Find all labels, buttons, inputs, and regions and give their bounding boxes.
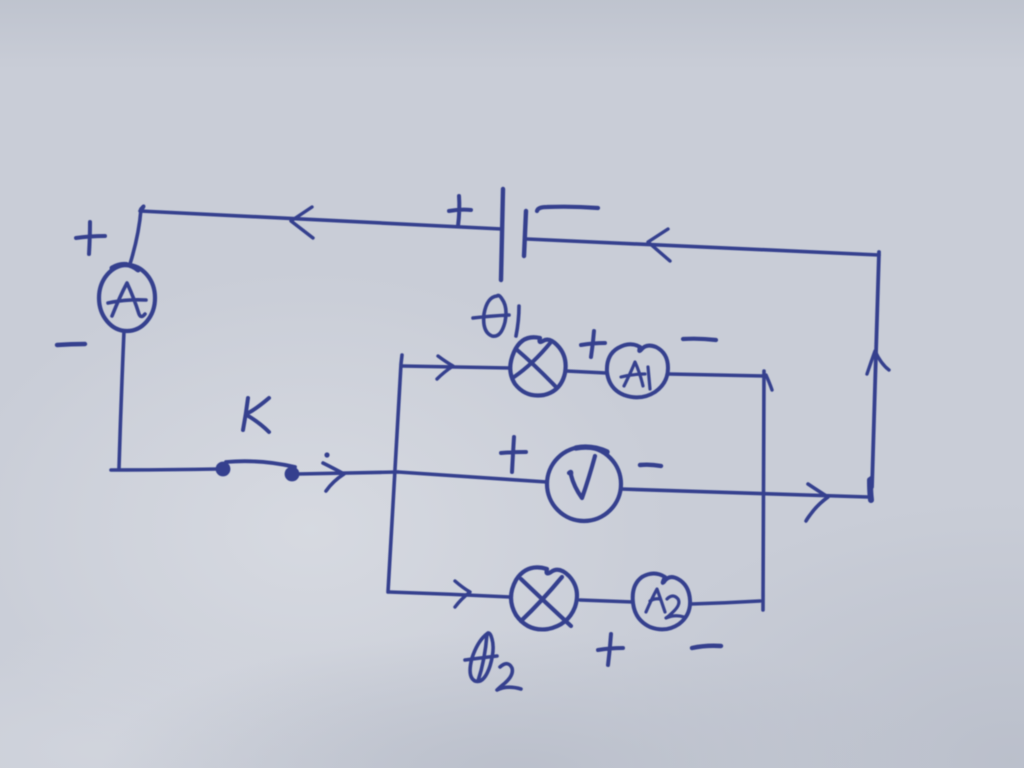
junction blob right end	[870, 480, 871, 500]
wire voltmeter to right	[621, 489, 868, 497]
battery B right plate	[524, 211, 526, 256]
wire far right rail	[870, 252, 879, 498]
lamp L1 cross	[514, 342, 557, 388]
arrow bottom branch	[455, 581, 470, 607]
ammeter A1 plus label	[581, 331, 605, 357]
switch K label	[243, 398, 269, 432]
wire middle: left rail to voltmeter	[398, 472, 547, 482]
arrow top branch	[437, 356, 453, 379]
ammeter A body	[99, 265, 155, 331]
ammeter A2 body	[633, 574, 690, 630]
ammeter A1 letters	[621, 362, 650, 389]
ammeter A2 letters	[646, 589, 684, 618]
ammeter A1 minus label	[683, 339, 716, 340]
arrow on top-left wire	[291, 207, 313, 238]
ammeter A minus label	[57, 344, 85, 345]
wire top-right (right rail to battery -)	[527, 239, 879, 255]
switch K contact dot 2	[285, 467, 300, 482]
dot above arrow	[324, 452, 329, 457]
voltmeter top blob	[576, 447, 607, 452]
wire from corner down to ammeter A	[130, 209, 141, 264]
lamp L2 label theta2	[465, 633, 521, 690]
junction tick on inner right rail	[766, 375, 772, 390]
lamp L2 cross	[521, 577, 571, 626]
wire bottom branch left	[389, 592, 510, 597]
wire to switch	[111, 469, 218, 470]
switch K blade	[226, 461, 295, 467]
lamp L2 body	[511, 567, 577, 629]
arrow after switch	[323, 463, 344, 491]
ammeter A plus label	[76, 222, 105, 254]
arrow on top-right wire	[648, 229, 670, 261]
voltmeter plus label	[501, 437, 526, 472]
ammeter A1 body	[607, 344, 668, 397]
lamp L1 body	[510, 337, 565, 395]
switch K contact dot 1	[216, 462, 231, 477]
voltmeter minus label	[640, 465, 661, 466]
wire A1 to inner right rail	[669, 374, 764, 376]
wire inner left rail	[388, 355, 402, 592]
wire top-left (battery + to ammeter corner)	[140, 206, 502, 229]
lamp L1 label theta1	[473, 295, 519, 336]
wire lamp L1 to ammeter A1	[566, 371, 606, 373]
battery minus label	[537, 207, 598, 211]
battery plus label	[449, 196, 471, 226]
voltmeter V body	[547, 447, 621, 521]
wire A2 to right rail corner	[691, 601, 760, 604]
arrow up on far right rail	[867, 351, 889, 374]
wire switch to left rail	[297, 472, 398, 474]
voltmeter V letter	[569, 456, 595, 498]
arrow on middle right wire	[806, 484, 828, 521]
wire inner right rail	[763, 371, 764, 610]
ammeter A2 minus label	[692, 646, 721, 648]
ammeter A letter	[108, 283, 146, 317]
wire ammeter bottom to switch level	[119, 331, 124, 468]
wire lamp L2 to ammeter A2	[580, 600, 633, 602]
wire top branch left	[402, 366, 510, 368]
ammeter A entry blob	[112, 264, 138, 270]
ammeter A2 plus label	[598, 634, 623, 665]
battery B left plate	[501, 189, 503, 280]
